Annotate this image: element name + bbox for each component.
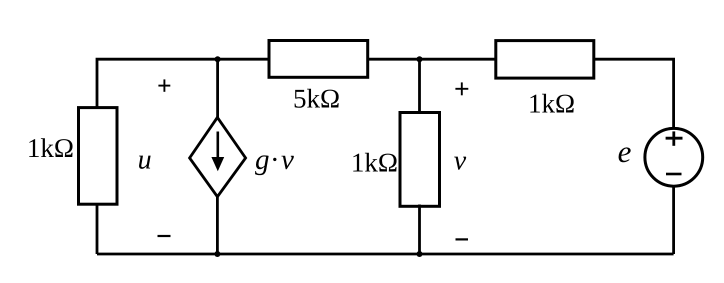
resistor R4 1kOhm top right xyxy=(496,41,594,79)
svg-text:e: e xyxy=(618,134,632,169)
voltage source E1 circle xyxy=(645,128,703,186)
node junction dot bottom left xyxy=(214,251,220,257)
wire xyxy=(418,205,421,255)
svg-text:1kΩ: 1kΩ xyxy=(528,88,575,118)
svg-text:v: v xyxy=(281,144,294,176)
label g*v for dependent source xyxy=(255,144,294,176)
node junction dot top right xyxy=(417,56,423,62)
minus sign for v xyxy=(456,238,469,240)
wire xyxy=(97,59,269,109)
svg-text:1kΩ: 1kΩ xyxy=(351,148,398,178)
svg-text:u: u xyxy=(138,145,152,176)
node junction dot top left xyxy=(215,56,221,62)
svg-text:5kΩ: 5kΩ xyxy=(293,84,340,114)
dependent current source G1 diamond xyxy=(190,117,246,196)
plus sign for u xyxy=(158,79,170,91)
wire xyxy=(418,59,421,113)
wire xyxy=(96,203,99,254)
resistor R2 5kOhm top xyxy=(269,41,368,78)
wire xyxy=(97,253,674,256)
wire xyxy=(216,196,219,255)
plus sign for v xyxy=(455,82,468,95)
svg-text:1kΩ: 1kΩ xyxy=(27,133,74,163)
minus sign for u xyxy=(158,235,171,237)
resistor R3 1kOhm middle xyxy=(400,113,440,207)
dependent source arrow xyxy=(211,132,224,172)
svg-text:v: v xyxy=(454,146,467,177)
wire xyxy=(368,58,496,61)
voltage source plus sign xyxy=(666,131,683,145)
wire xyxy=(594,59,674,128)
node junction dot bottom right xyxy=(417,251,423,257)
svg-text:·: · xyxy=(271,144,278,176)
wire xyxy=(672,187,675,254)
svg-text:g: g xyxy=(255,144,270,176)
resistor R1 1kOhm left xyxy=(79,108,118,205)
voltage source minus sign xyxy=(666,173,682,176)
wire xyxy=(216,59,219,119)
